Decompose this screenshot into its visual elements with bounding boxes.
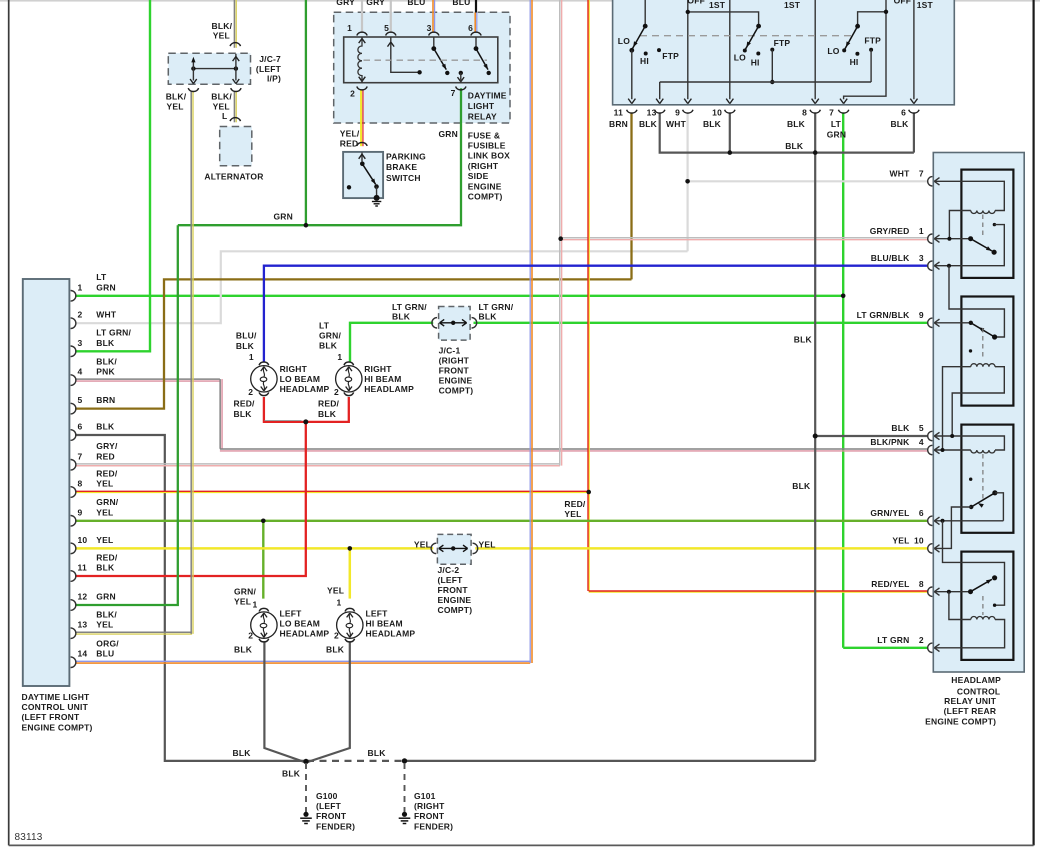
svg-text:WHT: WHT [96, 310, 117, 320]
daytime relay pin 7 arc [456, 86, 466, 89]
wire BLU (org/blu) into daytime relay pin 6 with black top segment [475, 0, 477, 13]
svg-text:COMPT): COMPT) [468, 192, 503, 202]
wire BLK comb pin6 drop [913, 112, 915, 152]
relay A pin1 line with pivot [934, 238, 970, 240]
relay unit pin arcs and arrows [928, 177, 933, 186]
wire YEL drop to left hi beam headlamp [349, 548, 352, 598]
svg-text:LO BEAM: LO BEAM [280, 374, 321, 384]
relay D coil between pin8 branch and pin2 [949, 592, 971, 620]
daytime light relay inner box [344, 37, 498, 83]
svg-text:2: 2 [334, 631, 339, 641]
svg-text:BLK: BLK [890, 119, 909, 129]
connector pin 7 arc [71, 460, 76, 471]
svg-text:HEADLAMP: HEADLAMP [280, 384, 330, 394]
svg-text:BLK: BLK [319, 341, 338, 351]
svg-text:2: 2 [350, 89, 355, 99]
svg-text:FTP: FTP [662, 51, 679, 61]
svg-text:FRONT: FRONT [438, 585, 469, 595]
svg-text:GRN/: GRN/ [234, 587, 256, 597]
svg-text:LT GRN/: LT GRN/ [479, 302, 514, 312]
svg-text:J/C-1: J/C-1 [439, 346, 461, 356]
wire GRN/YEL drop to left lo beam headlamp [262, 521, 264, 599]
J/C-2 internal arrows [431, 543, 436, 553]
comb switch right LO contact dot [842, 48, 846, 52]
relay A pin7 line and coil [934, 181, 1004, 210]
svg-text:GRN/YEL: GRN/YEL [870, 508, 909, 518]
svg-text:BRAKE: BRAKE [386, 162, 417, 172]
comb switch middle wiper [756, 24, 761, 29]
svg-text:7: 7 [451, 88, 456, 98]
svg-text:YEL: YEL [479, 540, 496, 550]
headlamp control relay unit box [933, 153, 1024, 673]
svg-text:GRN/: GRN/ [319, 331, 341, 341]
svg-text:BLK: BLK [326, 645, 345, 655]
svg-text:BLU/BLK: BLU/BLK [871, 253, 910, 263]
svg-text:FRONT: FRONT [439, 366, 470, 376]
connector pin 12 arc [71, 600, 76, 611]
svg-text:OFF: OFF [687, 0, 705, 6]
comb switch left FTP contact dot [657, 48, 661, 52]
svg-text:BLK: BLK [236, 341, 255, 351]
junction WHT [685, 179, 690, 184]
svg-text:CONTROL: CONTROL [957, 687, 1000, 697]
comb switch left HI contact dot [644, 52, 648, 56]
relay C pivot path to pin10 line [934, 507, 971, 548]
svg-text:4: 4 [919, 437, 924, 447]
svg-text:RED/: RED/ [318, 399, 340, 409]
relay C dashed link [982, 454, 984, 502]
svg-text:FENDER): FENDER) [414, 821, 453, 831]
wire LT GRN vertical from comb switch pin 7 down to relay pin 2 [842, 112, 844, 647]
svg-text:COMPT): COMPT) [439, 386, 474, 396]
J/C-7 internal links [193, 68, 236, 70]
svg-text:1: 1 [249, 352, 254, 362]
svg-text:PARKING: PARKING [386, 151, 426, 161]
svg-text:GRY/RED: GRY/RED [870, 226, 910, 236]
svg-text:YEL: YEL [234, 597, 251, 607]
wire BLK left headlamp pin2 drops to ground junction [264, 642, 304, 763]
svg-text:RIGHT: RIGHT [364, 364, 392, 374]
svg-text:BLK: BLK [785, 141, 804, 151]
link pin6 to relay D contact [943, 521, 1005, 605]
svg-text:2: 2 [334, 387, 339, 397]
junction block J/C-7 dashed box [168, 53, 250, 84]
svg-text:RED: RED [96, 451, 115, 461]
wire LT GRN/BLK net: right hi beam headlamp to J/C-1 to relay pin9 [350, 323, 433, 362]
junction block J/C-1 dashed box [439, 307, 471, 341]
wire RED/YEL relay pin8 horizontal [589, 590, 928, 592]
svg-text:DAYTIME: DAYTIME [468, 91, 507, 101]
relay A wiper [971, 239, 992, 251]
svg-text:WHT: WHT [666, 119, 687, 129]
svg-text:BLK: BLK [392, 312, 411, 322]
svg-text:LO: LO [618, 36, 630, 46]
svg-text:1: 1 [337, 352, 342, 362]
svg-text:6: 6 [468, 23, 473, 33]
connector pin 10 arc [71, 543, 76, 554]
relay C pin4 line and coil [934, 449, 971, 451]
svg-text:DAYTIME LIGHT: DAYTIME LIGHT [22, 692, 91, 702]
svg-text:BLK/: BLK/ [166, 91, 187, 101]
comb switch internal: OFF link left [688, 12, 759, 26]
svg-text:BLK/: BLK/ [96, 356, 117, 366]
svg-text:FRONT: FRONT [414, 811, 445, 821]
daytime relay coil between pin1 and pin2 [358, 37, 362, 83]
relay B pin9 line with pivot [934, 322, 971, 324]
svg-text:GRN: GRN [439, 129, 459, 139]
svg-text:83113: 83113 [15, 832, 43, 843]
comb switch internal: pin9 OFF column [687, 0, 689, 99]
daytime relay pin6 switch [475, 37, 477, 47]
wire BLK relay pin5 horizontal [815, 435, 927, 437]
svg-text:BLK/: BLK/ [96, 610, 117, 620]
relay A dashed link [982, 215, 984, 236]
wire GRY/RED net: connector pin7 up to top edge with branch to relay pin1 [75, 463, 560, 465]
wire BLK comb pin8 long vertical to relay pin5 and ground bus [814, 112, 816, 761]
comb switch internal: pin10 column [729, 0, 731, 99]
svg-text:BRN: BRN [96, 395, 115, 405]
wire LT GRN/BLK net: connector pin3 up to top edge [75, 0, 150, 351]
svg-text:BRN: BRN [609, 119, 628, 129]
svg-text:RED: RED [340, 139, 359, 149]
svg-text:YEL: YEL [564, 509, 581, 519]
wire RED/BLK net: connector pin11 to right headlamps pin2 [75, 422, 306, 576]
svg-text:YEL/: YEL/ [340, 128, 360, 138]
svg-text:J/C-2: J/C-2 [438, 565, 460, 575]
svg-text:BLK: BLK [479, 312, 498, 322]
relay C contact and wiper [992, 490, 997, 495]
wire YEL/RED from daytime relay pin2 to parking brake switch [360, 90, 362, 146]
junction GRN/YEL [261, 519, 266, 524]
relay B dashed link [982, 328, 984, 360]
svg-text:RED/: RED/ [96, 468, 118, 478]
svg-text:10: 10 [78, 535, 88, 545]
wire GRN vertical from top edge [305, 0, 307, 225]
relay unit black frame A [961, 170, 1013, 278]
svg-text:4: 4 [78, 367, 83, 377]
svg-text:J/C-7: J/C-7 [259, 54, 281, 64]
junction LT GRN [841, 294, 846, 299]
daytime relay pin 1 arc [357, 32, 367, 35]
svg-text:YEL: YEL [167, 101, 184, 111]
wire BLU (org/blu) into daytime relay pin 3 [432, 0, 434, 33]
svg-text:7: 7 [919, 169, 924, 179]
comb switch internal: OFF link right [844, 0, 886, 99]
comb switch left wiper (dimmer LO) [644, 0, 646, 26]
svg-text:13: 13 [647, 108, 657, 118]
svg-text:HI BEAM: HI BEAM [366, 619, 403, 629]
daytime relay pin 3 arc [429, 32, 439, 35]
svg-text:2: 2 [248, 631, 253, 641]
wire ORG/BLU net: connector pin14 up to top edge [75, 660, 530, 662]
svg-text:(RIGHT: (RIGHT [439, 356, 470, 366]
svg-text:RED/: RED/ [564, 499, 586, 509]
alternator dashed box [220, 127, 252, 166]
svg-text:YEL: YEL [414, 540, 431, 550]
svg-text:ENGINE: ENGINE [439, 376, 473, 386]
svg-text:3: 3 [78, 338, 83, 348]
comb switch middle FTP contact dot and drop [770, 48, 774, 52]
wire LT GRN relay unit pin2 horizontal [843, 647, 927, 649]
svg-text:GRN: GRN [96, 592, 116, 602]
svg-text:9: 9 [675, 108, 680, 118]
svg-text:BLK: BLK [792, 481, 811, 491]
page left border [8, 0, 10, 845]
parking brake switch entry arc [357, 142, 367, 145]
comb switch internal: pin6 column [913, 0, 915, 99]
parking brake switch internals [361, 153, 363, 162]
connector pin 2 arc [71, 318, 76, 329]
wire BRN vertical comb pin 11 [630, 112, 632, 279]
svg-text:BLK: BLK [703, 119, 722, 129]
wire RED/BLK between right lo and right hi beam pin2 [264, 397, 349, 422]
wire BLK/YEL L from J/C-7 to alternator [233, 92, 235, 123]
comb switch right HI contact dot [855, 52, 859, 56]
svg-text:1: 1 [337, 598, 342, 608]
svg-text:BLK/: BLK/ [211, 91, 232, 101]
svg-text:BLK: BLK [368, 748, 387, 758]
svg-text:RED/: RED/ [96, 552, 118, 562]
svg-text:G101: G101 [414, 791, 436, 801]
wire BLK comb pin13 to bus [660, 112, 914, 152]
svg-text:YEL: YEL [213, 31, 230, 41]
svg-text:PNK: PNK [96, 367, 115, 377]
junction BLK ground node [303, 759, 308, 764]
svg-text:YEL: YEL [96, 479, 113, 489]
svg-text:LT GRN/: LT GRN/ [392, 302, 427, 312]
link pin3 contact to relay B [949, 266, 1004, 337]
relay D pin8 line with pivot [934, 591, 970, 593]
svg-text:BLK/PNK: BLK/PNK [870, 437, 910, 447]
svg-text:BLK: BLK [639, 119, 658, 129]
junction RED/YEL [586, 490, 591, 495]
svg-text:COMPT): COMPT) [438, 605, 473, 615]
relay unit black frame B [961, 297, 1013, 406]
svg-text:12: 12 [78, 592, 88, 602]
relay D wiper [971, 579, 992, 591]
svg-text:FTP: FTP [864, 36, 881, 46]
daytime relay dashed linkage [364, 59, 488, 61]
svg-text:11: 11 [78, 563, 87, 573]
svg-text:1: 1 [253, 600, 258, 610]
lamp RIGHT HI BEAM HEADLAMP [336, 366, 362, 392]
svg-text:(LEFT: (LEFT [256, 64, 282, 74]
relay A pin3 line [934, 265, 949, 267]
svg-text:11: 11 [614, 108, 623, 118]
svg-text:6: 6 [78, 422, 83, 432]
svg-text:GRN: GRN [274, 212, 294, 222]
wire BLK/YEL from top edge to J/C-7 [233, 0, 235, 48]
wire BLK comb pin10 drop [729, 112, 731, 152]
svg-text:BLK: BLK [233, 748, 252, 758]
svg-text:GRY: GRY [336, 0, 355, 7]
svg-text:LEFT: LEFT [366, 609, 389, 619]
connector pin 6 arc [71, 430, 76, 441]
svg-text:BLU: BLU [407, 0, 425, 7]
svg-text:ALTERNATOR: ALTERNATOR [204, 172, 263, 182]
lamp RIGHT LO BEAM HEADLAMP [251, 366, 277, 392]
connector pin 3 arc [71, 346, 76, 357]
svg-text:LT GRN: LT GRN [877, 635, 909, 645]
svg-text:8: 8 [78, 479, 83, 489]
svg-text:3: 3 [919, 253, 924, 263]
junction BLK at pin10 column [728, 150, 733, 155]
relay D NC contact dot [993, 604, 996, 607]
junction BLK at relay pin5 branch [813, 434, 818, 439]
svg-text:BLU/: BLU/ [236, 331, 257, 341]
parking brake switch ground contact [374, 195, 380, 201]
daytime light relay dashed box (fuse and fusible link box) [334, 12, 510, 123]
svg-text:5: 5 [78, 395, 83, 405]
wire WHT relay pin7 horizontal [688, 180, 928, 182]
svg-text:HEADLAMP: HEADLAMP [364, 384, 414, 394]
comb switch pin arcs and numbers [627, 110, 637, 113]
svg-text:GRN/: GRN/ [96, 497, 118, 507]
svg-text:RELAY: RELAY [468, 112, 497, 122]
ground lead G100 dashed [305, 763, 307, 812]
junction GRY/RED [558, 236, 563, 241]
svg-text:1ST: 1ST [784, 0, 801, 10]
svg-text:1: 1 [347, 23, 352, 33]
svg-text:(LEFT REAR: (LEFT REAR [944, 706, 997, 716]
svg-text:GRY/: GRY/ [96, 441, 118, 451]
svg-text:BLK: BLK [282, 769, 301, 779]
svg-text:BLK: BLK [794, 335, 813, 345]
svg-text:ORG/: ORG/ [96, 639, 119, 649]
daytime relay pin3 switch [433, 37, 435, 47]
svg-text:LINK BOX: LINK BOX [468, 151, 510, 161]
svg-text:YEL: YEL [96, 535, 113, 545]
ground symbol G101 [402, 812, 407, 817]
svg-text:5: 5 [919, 423, 924, 433]
daytime relay pin7 contact and lead [459, 71, 463, 75]
svg-text:HEADLAMP: HEADLAMP [366, 629, 416, 639]
parking brake switch open contact dot [347, 185, 351, 189]
page bottom border [9, 844, 1034, 846]
svg-text:BLK: BLK [318, 409, 337, 419]
svg-text:LT: LT [319, 321, 330, 331]
svg-text:BLK: BLK [96, 422, 115, 432]
junction BLK at pin8 column [813, 150, 818, 155]
daytime relay pin5 line to open contact [391, 37, 420, 72]
svg-text:L: L [222, 111, 227, 121]
wire WHT vertical comb pin9 [686, 112, 688, 251]
svg-text:9: 9 [78, 507, 83, 517]
wire GRN bus to daytime light relay pin7 [178, 88, 461, 225]
wire RED/BLK gray stripe accent [265, 420, 302, 422]
comb switch middle HI contact dot [756, 52, 760, 56]
svg-text:BLK: BLK [234, 409, 253, 419]
wire BLK ground bus dashed segment to G101 [307, 760, 404, 762]
lamp LEFT HI BEAM HEADLAMP [337, 612, 363, 638]
comb switch internal: dashed gang linkage [640, 35, 851, 37]
daytime relay pin 5 arc [386, 32, 396, 35]
svg-text:FRONT: FRONT [316, 811, 347, 821]
wire RED/YEL net: connector pin8 to vertical riser [75, 490, 588, 492]
parking brake switch box [343, 152, 383, 198]
svg-text:YEL: YEL [892, 536, 909, 546]
relay B open contact dot [969, 349, 972, 352]
wire BRN net: connector pin5 to comb switch pin11 [75, 279, 632, 408]
svg-text:10: 10 [712, 108, 722, 118]
svg-text:YEL: YEL [96, 620, 113, 630]
relay B wiper [971, 323, 995, 337]
relay unit black frame D [961, 552, 1013, 660]
wire BLK ground bus solid segment to relay BLK vertical [406, 760, 815, 762]
svg-text:10: 10 [914, 536, 924, 546]
svg-text:G100: G100 [316, 791, 338, 801]
svg-text:HI BEAM: HI BEAM [364, 374, 401, 384]
J/C-1 internal arrows [432, 318, 437, 328]
relay C open contact dot [969, 478, 972, 481]
connector pin 1 arc [71, 291, 76, 302]
lamp LEFT LO BEAM HEADLAMP [251, 612, 277, 638]
connector pin 5 arc [71, 403, 76, 414]
svg-text:RED/YEL: RED/YEL [871, 579, 909, 589]
relay D dashed link [982, 596, 984, 615]
ground symbol G100 [303, 812, 308, 817]
svg-text:RED/: RED/ [234, 399, 256, 409]
wire BLK/YEL net: connector pin13 to J/C-7 left branch [75, 631, 192, 633]
relay C pin5 line [934, 436, 1004, 450]
connector pin 8 arc [71, 487, 76, 498]
wire GRY/RED relay pin1 horizontal [561, 237, 928, 239]
svg-text:LT GRN/: LT GRN/ [96, 328, 131, 338]
svg-text:BLU: BLU [452, 0, 470, 7]
svg-text:HI: HI [850, 57, 859, 67]
junction BLK G101 node [402, 758, 407, 763]
junction GRN [304, 223, 309, 228]
alternator entry arc [230, 118, 240, 121]
connector pin 9 arc [71, 516, 76, 527]
relay A NC contact path to pin3 [993, 223, 996, 226]
wire BLK net: connector pin6 to bottom ground bus [75, 435, 305, 761]
svg-text:HEADLAMP: HEADLAMP [280, 629, 330, 639]
svg-text:I/P): I/P) [267, 74, 281, 84]
svg-text:BLK: BLK [891, 423, 910, 433]
svg-text:7: 7 [78, 451, 83, 461]
comb switch internal: pin8 column [814, 0, 816, 99]
svg-text:BLK/: BLK/ [212, 21, 233, 31]
relay B coil [971, 364, 995, 367]
relay unit black frame C [961, 425, 1013, 533]
svg-text:(LEFT: (LEFT [316, 801, 342, 811]
svg-text:ENGINE: ENGINE [468, 181, 502, 191]
svg-text:GRN: GRN [827, 130, 847, 140]
relay C pin6 line [934, 520, 1003, 522]
svg-text:HEADLAMP: HEADLAMP [951, 675, 1001, 685]
svg-text:2: 2 [78, 310, 83, 320]
wire YEL net: connector pin10 through J/C-2 to relay pin10 [75, 547, 433, 550]
svg-text:LO BEAM: LO BEAM [280, 619, 321, 629]
svg-text:(RIGHT: (RIGHT [468, 161, 499, 171]
wire BLK/PNK net: connector pin4 to relay pin4 [75, 378, 220, 380]
svg-text:YEL: YEL [96, 507, 113, 517]
svg-text:LEFT: LEFT [280, 609, 303, 619]
svg-text:ENGINE COMPT): ENGINE COMPT) [925, 717, 996, 727]
svg-text:ENGINE COMPT): ENGINE COMPT) [22, 722, 93, 732]
page right border [1032, 0, 1034, 845]
svg-text:WHT: WHT [890, 169, 911, 179]
connector pin 11 arc [71, 571, 76, 582]
svg-text:8: 8 [802, 108, 807, 118]
svg-text:LT GRN/BLK: LT GRN/BLK [857, 310, 910, 320]
svg-text:HI: HI [640, 56, 649, 66]
svg-text:HI: HI [751, 58, 760, 68]
svg-text:BLK: BLK [96, 563, 115, 573]
svg-text:BLK: BLK [96, 338, 115, 348]
svg-text:BLU: BLU [96, 649, 114, 659]
